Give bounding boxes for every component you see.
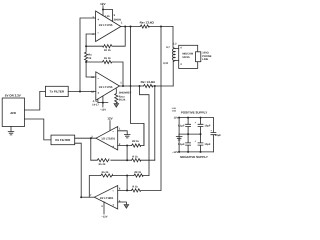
svg-text:12V: 12V bbox=[100, 2, 105, 6]
wire hybrid tap from U1a out bbox=[131, 27, 144, 146]
svg-text:5: 5 bbox=[114, 14, 116, 17]
svg-text:SHDN: SHDN bbox=[114, 18, 121, 21]
node U1b out tap bbox=[139, 85, 141, 87]
svg-text:R 1k: R 1k bbox=[132, 155, 138, 158]
svg-text:AFE: AFE bbox=[10, 111, 16, 115]
svg-text:12V: 12V bbox=[107, 117, 112, 121]
wire tap B down (post-RBT2 to U2a R row) bbox=[154, 86, 156, 160]
ground (AFE) bbox=[8, 127, 14, 135]
wire RX row U2b bbox=[89, 176, 149, 198]
wire U2a feedback leg bbox=[90, 138, 92, 160]
12V supply U2a bbox=[107, 117, 112, 121]
resistor RBT2 13.4 bbox=[144, 84, 153, 87]
svg-text:10μF: 10μF bbox=[215, 134, 221, 137]
node supply rail junctions bbox=[178, 117, 201, 153]
wire supply left vertical bbox=[178, 118, 180, 152]
svg-text:12: 12 bbox=[91, 91, 94, 94]
svg-text:7: 7 bbox=[90, 194, 92, 197]
svg-text:+: + bbox=[97, 91, 99, 95]
svg-text:10μF: 10μF bbox=[204, 125, 210, 128]
svg-text:2k: 2k bbox=[88, 57, 91, 60]
node U2b fb junction bbox=[126, 175, 128, 177]
Rx FILTER box bbox=[51, 135, 75, 145]
wire U2b output bbox=[81, 196, 94, 198]
svg-text:0.1μF: 0.1μF bbox=[178, 143, 185, 146]
5V OR 3.3V supply label bbox=[5, 94, 21, 98]
wire line-side tap A down (post-RBT1 to U2b R row) bbox=[160, 27, 162, 191]
svg-text:14-17: 14-17 bbox=[92, 103, 99, 106]
svg-text:−: − bbox=[112, 189, 114, 193]
node U1a fb bbox=[85, 45, 87, 47]
wire U2a pin2 row bbox=[118, 124, 144, 146]
wire U1b output row bbox=[120, 85, 174, 87]
POSITIVE SUPPLY label bbox=[181, 111, 207, 115]
wire node column U2a bbox=[126, 146, 128, 161]
AFE box bbox=[2, 98, 24, 127]
svg-text:4: 4 bbox=[180, 46, 182, 49]
svg-text:NEGATIVE SUPPLY: NEGATIVE SUPPLY bbox=[180, 155, 208, 159]
resistor R 1k (U2b) bbox=[131, 189, 140, 192]
svg-text:−: − bbox=[112, 130, 114, 134]
wire +12V rail bbox=[179, 117, 213, 119]
wire U2a pin1 to ground bbox=[118, 131, 128, 135]
supply pin U2b bbox=[103, 202, 105, 214]
op-amp U1b 1/2 LT1795 bbox=[96, 72, 120, 100]
node U2a R junction bbox=[126, 159, 128, 161]
resistor RF1 1k (U1a feedback) bbox=[86, 27, 125, 48]
resistor R 1k (U2a) bbox=[132, 159, 141, 162]
svg-text:SHDNREF: SHDNREF bbox=[119, 91, 132, 94]
ground (supply) bbox=[176, 137, 182, 140]
resistor 2R 1k (U2a) bbox=[132, 144, 141, 147]
svg-text:1/2 LT1795: 1/2 LT1795 bbox=[99, 86, 113, 89]
svg-text:+: + bbox=[194, 140, 196, 143]
svg-text:+: + bbox=[112, 144, 114, 148]
svg-text:1: 1 bbox=[119, 128, 121, 131]
svg-text:Tx FILTER: Tx FILTER bbox=[49, 90, 64, 94]
capacitor C3 10uF bbox=[198, 118, 203, 135]
svg-text:+: + bbox=[97, 17, 99, 21]
supply pins U1b bbox=[98, 96, 108, 107]
wire 12V to U1a bbox=[102, 6, 104, 16]
node U1b fb bbox=[85, 61, 87, 63]
svg-text:1:2: 1:2 bbox=[173, 43, 177, 46]
wire U2b pin5 to ground bbox=[118, 202, 127, 205]
svg-text:50215: 50215 bbox=[182, 56, 190, 59]
svg-text:1/2 LT1801: 1/2 LT1801 bbox=[100, 197, 114, 200]
svg-text:−: − bbox=[97, 31, 99, 35]
svg-text:−12V: −12V bbox=[172, 151, 178, 154]
wire U1a output row bbox=[121, 26, 173, 28]
wire Rx filter lower to U2b output bbox=[75, 143, 82, 197]
wire U2b pin6 row bbox=[118, 189, 161, 191]
node op1 out A bbox=[124, 26, 126, 28]
svg-text:POSITIVE SUPPLY: POSITIVE SUPPLY bbox=[181, 111, 207, 115]
wire node column U2b bbox=[126, 176, 128, 191]
capacitor C5 10uF bbox=[198, 134, 203, 152]
node crossing bbox=[130, 85, 132, 87]
svg-text:2R 1k: 2R 1k bbox=[132, 140, 139, 143]
node 12V junction bbox=[102, 9, 104, 11]
svg-text:6: 6 bbox=[119, 187, 121, 190]
op-amp U2a 1/2 LT1801 bbox=[96, 127, 118, 151]
resistor RBT1 13.4 bbox=[140, 25, 149, 28]
wire node Tx up to U1a + input bbox=[80, 18, 96, 92]
svg-text:RF 1k: RF 1k bbox=[104, 49, 111, 52]
svg-text:+: + bbox=[112, 203, 114, 207]
resistor load 100 ohm (line) bbox=[196, 52, 201, 62]
wire RG to U1b inverting input bbox=[86, 62, 96, 77]
svg-text:RX 2k: RX 2k bbox=[102, 171, 109, 174]
svg-text:13: 13 bbox=[91, 76, 94, 79]
wire Rx filter to U2a output bbox=[75, 137, 96, 139]
wire -12V rail bbox=[179, 151, 213, 153]
svg-text:1: 1 bbox=[121, 22, 123, 25]
svg-text:4: 4 bbox=[101, 205, 103, 208]
svg-text:Rx FILTER: Rx FILTER bbox=[55, 138, 71, 142]
svg-text:+: + bbox=[194, 121, 196, 124]
wire U1a inverting input bbox=[86, 34, 96, 52]
node U2a pin2 bbox=[126, 145, 128, 147]
svg-text:9,10: 9,10 bbox=[163, 62, 169, 65]
svg-text:TA03: TA03 bbox=[172, 109, 176, 112]
node line-side tap A bbox=[160, 26, 162, 28]
svg-text:4, 5: 4, 5 bbox=[93, 100, 98, 103]
svg-text:1: 1 bbox=[120, 82, 122, 85]
12V supply U1a bbox=[100, 2, 105, 6]
svg-text:5V OR 3.3V: 5V OR 3.3V bbox=[5, 94, 21, 98]
svg-text:RX 2k: RX 2k bbox=[99, 163, 106, 166]
svg-text:LINE: LINE bbox=[202, 58, 208, 61]
wire AFE to Rx filter bbox=[25, 119, 52, 140]
wire Tx filter to U1b + input bbox=[68, 91, 96, 93]
Tx FILTER box bbox=[45, 86, 68, 96]
wire ground rail bbox=[179, 133, 200, 135]
svg-text:RBT 13.4Ω: RBT 13.4Ω bbox=[141, 80, 156, 84]
svg-text:12V: 12V bbox=[174, 117, 179, 120]
svg-text:1/2 LT1795: 1/2 LT1795 bbox=[99, 24, 113, 27]
svg-text:−12V: −12V bbox=[101, 215, 107, 218]
svg-text:R 1k: R 1k bbox=[132, 186, 138, 189]
figure tag bbox=[172, 107, 176, 112]
NEGATIVE SUPPLY label bbox=[180, 155, 208, 159]
node U1b out A bbox=[122, 85, 124, 87]
node post-RBT2 tap bbox=[154, 85, 156, 87]
node Tx out junction bbox=[79, 91, 81, 93]
ground (U2a) bbox=[124, 135, 130, 138]
svg-text:−12V: −12V bbox=[100, 108, 106, 111]
svg-text:2R 1k: 2R 1k bbox=[134, 171, 141, 174]
SHDNREF pin and resistor RADJ 56.2k bbox=[115, 89, 118, 104]
resistor RX 2k (U2a feedback) bbox=[97, 159, 109, 162]
wire 12V to U2a bbox=[109, 121, 111, 131]
node op1 out B bbox=[130, 26, 132, 28]
capacitor C4 0.1uF bbox=[186, 134, 191, 152]
wire hybrid tap from U1b out bbox=[140, 86, 150, 176]
wire AFE to Tx filter bbox=[25, 91, 46, 110]
svg-text:RBT 13.4Ω: RBT 13.4Ω bbox=[140, 20, 155, 24]
svg-text:RF 1k: RF 1k bbox=[104, 57, 111, 60]
svg-text:−: − bbox=[97, 76, 99, 80]
resistor RX 2k (U2b feedback) bbox=[101, 174, 113, 177]
capacitor C6 10uF bbox=[211, 118, 216, 152]
node U2a out bbox=[90, 137, 92, 139]
node U2b pin6 bbox=[126, 189, 128, 191]
resistor 2R 1k (U2b) bbox=[134, 174, 143, 177]
op-amp U1a 1/2 LT1795 bbox=[96, 11, 121, 42]
svg-text:1.1k: 1.1k bbox=[105, 15, 111, 18]
ground (U2b) arrow bbox=[124, 205, 129, 209]
wire RX row U2a bbox=[91, 159, 155, 161]
svg-text:3: 3 bbox=[180, 63, 182, 66]
transformer T1 body MIDCOM 50215 bbox=[179, 45, 198, 68]
node U2b out bbox=[80, 196, 82, 198]
capacitor C2 0.1uF bbox=[186, 118, 191, 135]
svg-text:+: + bbox=[210, 129, 212, 132]
svg-text:0.1μF: 0.1μF bbox=[178, 125, 185, 128]
AFE label bbox=[10, 111, 16, 115]
svg-text:56.2k: 56.2k bbox=[119, 99, 126, 102]
resistor RG 2k (vertical) bbox=[85, 52, 88, 62]
svg-text:6,7: 6,7 bbox=[166, 46, 170, 49]
wire RBT2 to transformer bbox=[172, 62, 174, 86]
svg-text:1/2 LT1801: 1/2 LT1801 bbox=[101, 138, 115, 141]
transformer T1 primary coil bbox=[173, 27, 179, 62]
svg-text:10μF: 10μF bbox=[204, 143, 210, 146]
resistor R1 1.1k (U1a compensation) bbox=[103, 10, 113, 22]
resistor RF2 1k (U1b feedback) bbox=[86, 60, 123, 86]
ground (RADJ) arrow bbox=[114, 104, 119, 108]
op-amp U2b 1/2 LT1801 bbox=[94, 186, 117, 210]
